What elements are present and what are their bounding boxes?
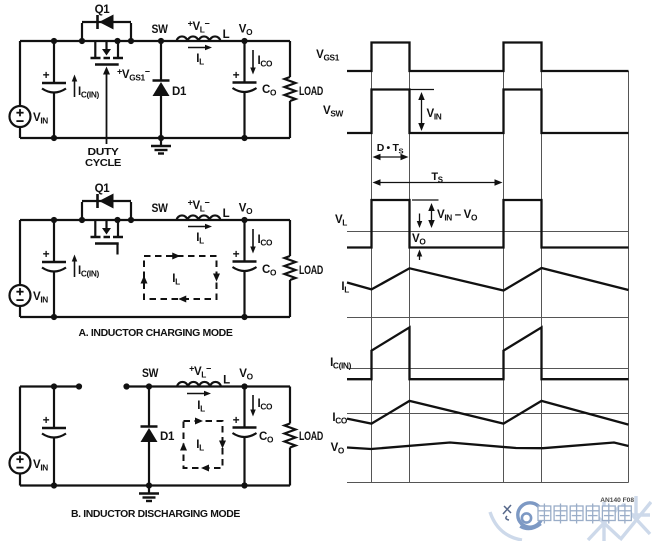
current arrow IC0 circuit2 <box>252 229 254 248</box>
junction D1 bottom circuit1 <box>158 135 164 141</box>
wire input cap bottom circuit1 <box>53 93 55 139</box>
wire top rail right segment circuit3 <box>127 385 291 387</box>
capacitor C0 circuit2 <box>233 260 257 263</box>
junction input cap top circuit2 <box>51 217 57 223</box>
svg-text:+: + <box>233 413 240 427</box>
watermark text glyphs <box>538 504 551 524</box>
wire top rail circuit2 <box>20 219 290 221</box>
node SW circuit3 <box>146 383 152 389</box>
current loop IL circuit2 <box>144 256 217 299</box>
junction C0 bottom circuit3 <box>241 482 247 488</box>
current loop IL circuit3 <box>184 421 223 468</box>
svg-text:L: L <box>223 29 230 41</box>
wire C0 bottom circuit2 <box>243 271 245 317</box>
wire input cap bottom circuit2 <box>53 272 55 318</box>
current arrow IC0 circuit3 <box>252 395 254 411</box>
waveform VL <box>347 200 629 248</box>
waveform VGS1 <box>347 43 629 72</box>
capacitor C0 circuit1 <box>233 81 257 84</box>
current arrow IC(IN) circuit2 <box>74 260 76 277</box>
svg-text:+: + <box>43 68 50 82</box>
wire input cap branch circuit1 <box>53 41 55 83</box>
svg-text:Q1: Q1 <box>95 4 111 16</box>
capacitor CIN circuit1 <box>42 82 66 85</box>
current arrow IL circuit1 <box>188 47 207 49</box>
ground circuit3 <box>148 486 150 494</box>
junction cap bottom circuit2 <box>51 314 57 320</box>
svg-text:+: + <box>43 247 50 261</box>
node V0 circuit3 <box>241 383 247 389</box>
svg-text:LOAD: LOAD <box>299 86 323 98</box>
zero line IC0 <box>347 413 629 415</box>
gridline t1 <box>409 43 411 483</box>
watermark small marks <box>503 505 511 520</box>
diode D1 circuit3 <box>141 425 158 428</box>
svg-text:+: + <box>233 247 240 261</box>
svg-text:L: L <box>223 375 230 387</box>
svg-text:SW: SW <box>152 24 168 36</box>
zero line VL <box>347 231 629 233</box>
wire SW to D1 circuit3 <box>148 387 150 427</box>
transistor Q1 circuit2 <box>94 220 96 236</box>
wire V0 to C0 circuit3 <box>243 387 245 428</box>
junction cap bottom circuit1 <box>51 135 57 141</box>
waveform IC0 <box>347 401 629 425</box>
svg-text:A. INDUCTOR CHARGING MODE: A. INDUCTOR CHARGING MODE <box>79 328 234 339</box>
waveform IL <box>347 268 629 291</box>
voltage source VIN circuit1 <box>10 106 31 127</box>
junction mosfet right circuit1 <box>114 38 120 44</box>
wire V0 to C0 circuit2 <box>243 220 245 262</box>
dimension arrow D.TS <box>379 156 403 158</box>
gridline t0 <box>371 43 373 483</box>
wire V0 to C0 circuit1 <box>243 41 245 83</box>
open switch terminal left circuit3 <box>76 383 82 389</box>
wire input cap bottom circuit3 <box>53 438 55 486</box>
svg-text:LOAD: LOAD <box>299 431 323 443</box>
transistor Q1 circuit1 <box>94 41 96 57</box>
wire right branch lower circuit1 <box>289 101 291 138</box>
waveform VSW <box>347 90 629 134</box>
svg-text:LOAD: LOAD <box>299 265 323 277</box>
tick VL top level <box>412 199 439 201</box>
svg-text:+: + <box>43 413 50 427</box>
svg-text:L: L <box>223 208 230 220</box>
svg-text:D1: D1 <box>172 86 187 98</box>
junction diode right circuit2 <box>128 217 134 223</box>
gridline right edge <box>628 71 630 483</box>
junction input cap top circuit3 <box>51 383 57 389</box>
current arrow IC(IN) circuit1 <box>74 80 76 97</box>
svg-text:SW: SW <box>142 368 158 380</box>
wire D1 bottom circuit3 <box>148 441 150 486</box>
open switch terminal right circuit3 <box>123 383 129 389</box>
tick VSW top level <box>410 89 435 91</box>
svg-text:D1: D1 <box>160 431 175 443</box>
junction diode right circuit1 <box>128 38 134 44</box>
wire left branch circuit1 <box>19 41 21 106</box>
gridline t2 <box>503 43 505 483</box>
wire bottom rail circuit2 <box>20 316 290 318</box>
waveform V0 <box>347 443 629 450</box>
junction D1 bottom circuit3 <box>146 482 152 488</box>
wire top rail circuit1 <box>20 40 290 42</box>
voltage source VIN circuit2 <box>10 285 31 306</box>
current arrow IC0 circuit1 <box>252 50 254 69</box>
node V0 circuit1 <box>241 38 247 44</box>
capacitor CIN circuit3 <box>42 427 66 430</box>
wire VIN bottom circuit3 <box>19 473 21 485</box>
zero line IL <box>347 317 629 319</box>
dimension arrow VIN-V0 <box>431 209 433 222</box>
wire C0 bottom circuit3 <box>243 437 245 486</box>
inductor L circuit2 <box>177 215 221 220</box>
capacitor C0 circuit3 <box>233 426 257 429</box>
wire VIN to bottom rail circuit1 <box>19 127 21 138</box>
body diode of Q1 circuit1 <box>81 23 83 41</box>
wire D1 bottom circuit1 <box>160 95 162 138</box>
svg-text:Q1: Q1 <box>95 183 111 195</box>
node SW circuit1 <box>158 38 164 44</box>
wire left branch circuit2 <box>19 220 21 285</box>
wire right branch lower circuit2 <box>289 280 291 317</box>
wire SW to D1 circuit1 <box>160 41 162 80</box>
current arrow IL circuit3 <box>187 393 206 395</box>
voltage source VIN circuit3 <box>10 453 31 474</box>
svg-text:SW: SW <box>152 203 168 215</box>
current arrow IL circuit2 <box>188 226 207 228</box>
wire right branch lower circuit3 <box>289 448 291 486</box>
wire input cap branch circuit2 <box>53 220 55 262</box>
wire right branch upper circuit1 <box>289 41 291 77</box>
node V0 circuit2 <box>241 217 247 223</box>
wire input cap branch circuit3 <box>53 387 55 429</box>
junction diode left circuit2 <box>79 217 85 223</box>
resistor LOAD circuit1 <box>285 77 296 101</box>
waveform IC(IN) <box>347 327 629 379</box>
wire bottom rail circuit1 <box>20 137 290 139</box>
junction input cap top circuit1 <box>51 38 57 44</box>
junction C0 bottom circuit1 <box>241 135 247 141</box>
svg-text:B. INDUCTOR DISCHARGING MODE: B. INDUCTOR DISCHARGING MODE <box>71 509 241 520</box>
wire right branch upper circuit3 <box>289 387 291 424</box>
junction C0 bottom circuit2 <box>241 314 247 320</box>
junction cap bottom circuit3 <box>51 482 57 488</box>
body diode of Q1 circuit2 <box>81 202 83 220</box>
wire bottom rail circuit3 <box>20 484 290 486</box>
dimension arrow VIN <box>421 98 423 125</box>
inductor L circuit3 <box>177 382 221 387</box>
gridline t3 <box>541 43 543 483</box>
wire gate drive circuit1 <box>106 74 108 144</box>
svg-text:+: + <box>233 68 240 82</box>
wire C0 bottom circuit1 <box>243 92 245 138</box>
zero line IC(IN) <box>347 368 629 370</box>
junction diode left circuit1 <box>79 38 85 44</box>
wire left branch circuit3 <box>19 387 21 453</box>
capacitor CIN circuit2 <box>42 261 66 264</box>
small arrow V0 upper <box>419 214 421 223</box>
diode D1 circuit1 <box>153 79 170 82</box>
inductor L circuit1 <box>177 36 221 41</box>
svg-text:CYCLE: CYCLE <box>85 157 121 169</box>
dimension arrow TS <box>379 182 497 184</box>
baseline bottom axis <box>347 482 629 484</box>
small arrow V0 lower <box>419 255 421 260</box>
wire right branch upper circuit2 <box>289 220 291 256</box>
watermark faint background glyphs <box>490 496 651 541</box>
junction mosfet right circuit2 <box>114 217 120 223</box>
wire VIN bottom circuit2 <box>19 306 21 317</box>
resistor LOAD circuit3 <box>285 424 296 448</box>
resistor LOAD circuit2 <box>285 256 296 280</box>
watermark logo ring <box>518 503 542 529</box>
wire top rail left segment circuit3 <box>20 385 79 387</box>
ground circuit1 <box>160 138 162 146</box>
